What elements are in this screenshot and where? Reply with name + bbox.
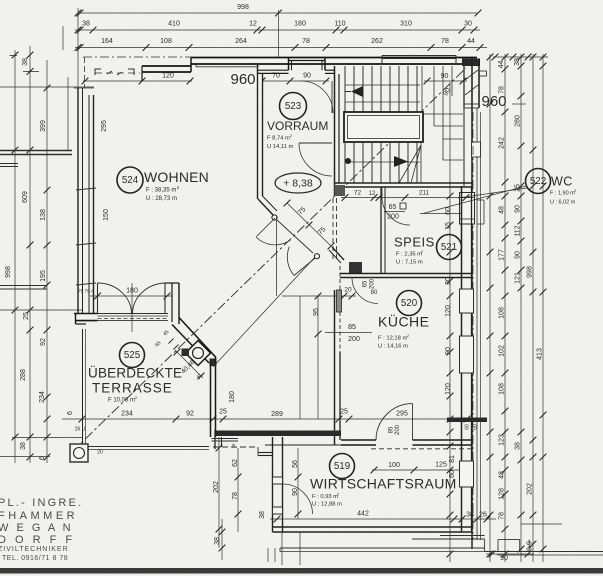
stair bottom wall [335,182,472,184]
dim row 3 top [75,47,487,49]
room terrasse 525 [120,343,145,368]
dash-dot roof line top-left [83,56,192,58]
svg-text:120: 120 [162,72,174,79]
right top dim row [493,56,548,58]
svg-text:ZIVILTECHNIKER: ZIVILTECHNIKER [0,546,69,553]
svg-text:38: 38 [259,511,266,519]
svg-text:262: 262 [371,38,383,45]
svg-text:38: 38 [82,20,90,27]
svg-text:60: 60 [472,424,478,430]
speis dim 72 12 211 [341,197,469,199]
svg-text:+ 8,38: + 8,38 [283,177,313,189]
terrace diagonal wall [179,318,216,358]
door threshold lines [98,313,169,315]
dim row 442 y519 [270,518,496,520]
stair arrow down [394,156,408,167]
wall B diagonal + corner post [332,247,344,260]
svg-text:FHAMMER: FHAMMER [0,510,78,522]
kueche right wall [461,186,463,418]
kueche left wall [334,290,336,445]
kueche top wall [340,273,472,275]
stair winder treads bottom-right [399,145,421,183]
svg-text:180: 180 [229,391,236,403]
svg-text:295: 295 [396,410,408,417]
svg-text:80: 80 [371,290,378,296]
dim row 2 top [75,29,480,31]
svg-text:25: 25 [23,312,30,320]
svg-text:12: 12 [369,191,376,197]
svg-text:48: 48 [498,471,505,479]
partition wohnen/vorraum [257,65,259,200]
svg-text:960: 960 [481,93,506,110]
room vorraum 523 [280,93,307,120]
svg-text:65: 65 [389,204,397,211]
svg-text:26 U: 26 U [75,426,86,432]
svg-text:108: 108 [498,383,505,395]
svg-text:202: 202 [526,483,533,495]
svg-text:108: 108 [498,307,505,319]
speis shelf line [420,213,461,215]
stair start dot [345,158,351,164]
svg-text:164: 164 [101,38,113,45]
svg-text:998: 998 [237,4,249,11]
svg-text:38: 38 [20,442,27,450]
wohnen left wall [77,88,79,313]
svg-text:100: 100 [388,462,400,469]
corridor dim 75 75 [287,203,331,246]
svg-text:125: 125 [435,461,447,468]
left dim col lines [14,50,16,463]
corridor door 2 leaf and arc [294,257,317,276]
svg-text:264: 264 [235,38,247,45]
svg-text:211: 211 [419,190,430,197]
svg-text:78: 78 [498,86,505,94]
svg-text:F : 12,18 m: F : 12,18 m [378,336,407,342]
kueche top door [352,278,378,304]
svg-text:38: 38 [514,442,521,450]
svg-text:D O R F F: D O R F F [0,534,75,546]
terrace corner column bottom-left [70,444,88,462]
wirtschaftsraum left wall [272,437,274,532]
dim diagonal 40,46 [175,350,203,378]
svg-text:310: 310 [400,20,412,27]
dim row terrace y419 [62,418,472,420]
vorraum ceiling line [276,217,278,296]
svg-text:90: 90 [500,555,508,562]
svg-text:W E G A N: W E G A N [0,522,73,534]
svg-text:960: 960 [230,71,255,88]
svg-text:128: 128 [498,488,505,500]
dim row 998 top [80,12,478,14]
svg-text:525: 525 [124,350,141,361]
svg-text:121: 121 [514,272,521,284]
svg-text:200: 200 [348,336,360,343]
svg-text:92: 92 [40,338,47,346]
entrance niche top wall [288,58,290,71]
svg-text:108: 108 [160,38,172,45]
svg-text:6: 6 [67,411,74,415]
svg-text:295: 295 [101,120,108,132]
level marker +8,38 [275,173,321,193]
lintel dark band [447,418,487,423]
vorraum entry door arc [301,81,333,113]
svg-text:177: 177 [498,249,505,261]
svg-text:TEL. 0916/71 8 78: TEL. 0916/71 8 78 [2,555,68,562]
top wall building [191,57,477,59]
level label 960 left [223,73,263,88]
svg-text:44: 44 [498,61,505,69]
stair well [344,112,423,142]
svg-text:U : 7,15 m: U : 7,15 m [396,260,423,266]
svg-text:44: 44 [467,38,475,45]
terrace column diamond [186,341,211,366]
svg-text:200: 200 [395,424,401,435]
svg-text:180: 180 [294,20,306,27]
newel post [335,185,346,196]
dim verticals bottom middle [218,437,220,548]
svg-text:112: 112 [514,225,521,236]
svg-text:522: 522 [530,176,546,187]
svg-text:90: 90 [514,205,521,213]
stair winder treads top-right [421,66,423,114]
svg-text:521: 521 [441,242,457,253]
speis west wall [380,187,382,274]
svg-text:WOHNEN: WOHNEN [144,169,209,185]
svg-text:200: 200 [387,213,399,220]
bottom right outside walls [471,532,473,549]
top wall window right (stair) [382,55,456,57]
stair-speis door [382,197,410,225]
terrace west edge [82,329,84,444]
svg-text:90: 90 [303,72,311,79]
svg-text:TERRASSE: TERRASSE [92,381,173,396]
svg-text:288: 288 [20,369,27,381]
terrace right wall vertical [210,361,212,437]
svg-text:U : 14,16 m: U : 14,16 m [378,344,408,350]
dim row wirtschaftsraum y470 [372,469,470,471]
svg-text:90: 90 [441,73,449,80]
svg-text:38: 38 [514,58,521,66]
wall block right of french door [165,282,179,284]
svg-text:90: 90 [514,251,521,259]
corridor closed leaf line [277,220,313,253]
svg-text:KÜCHE: KÜCHE [378,313,430,330]
room kueche 520 [397,291,422,316]
wirtschaftsraum north partition [213,446,258,448]
wc leader lines [423,186,526,214]
room wohnen 524 [117,167,143,193]
svg-text:78: 78 [441,38,449,45]
svg-text:92: 92 [186,410,194,417]
svg-text:F : 0,93 m: F : 0,93 m [312,494,338,500]
wirtschaftsraum bottom wall [273,526,473,528]
svg-text:138: 138 [40,209,47,221]
svg-text:413: 413 [536,348,543,360]
svg-text:20: 20 [344,287,352,294]
svg-text:78: 78 [302,38,310,45]
svg-text:WC: WC [551,174,573,188]
svg-text:123: 123 [498,434,505,446]
level label 960 right [474,95,514,110]
svg-text:25: 25 [219,408,227,415]
stair left wall [334,66,336,196]
left top extension lines [77,8,79,90]
svg-text:95: 95 [313,308,320,316]
svg-text:9,9: 9,9 [526,541,533,551]
room wirtschaftsraum 519 [330,454,355,479]
dim row 4 (120 / 70 90) [83,80,192,82]
svg-text:F : 1,90 m: F : 1,90 m [550,190,575,196]
left horizontal wall stubs [0,150,72,152]
svg-text:524: 524 [122,175,139,186]
svg-text:F : 38,35 m: F : 38,35 m [146,188,176,194]
svg-text:85: 85 [389,426,395,433]
dim row 180 french door y296 [90,295,172,297]
corridor diagonal wall A [258,199,274,216]
svg-text:85: 85 [348,324,356,331]
right dim col lines [449,82,451,562]
svg-text:U : 12,88 m: U : 12,88 m [312,502,342,508]
svg-text:F 10,06 m: F 10,06 m [108,398,135,404]
svg-text:520: 520 [401,298,418,309]
stair treads upper flight [344,66,346,112]
svg-text:38: 38 [22,58,29,66]
svg-text:410: 410 [168,20,180,27]
svg-text:PL.- INGRE.: PL.- INGRE. [0,497,83,509]
wohnen bottom wall + corner [74,313,98,315]
svg-text:U 14,11 m: U 14,11 m [267,144,293,150]
bottom black bar [0,568,603,574]
svg-text:120: 120 [445,305,452,317]
svg-text:U : 6,02 m: U : 6,02 m [550,199,576,205]
svg-text:78: 78 [498,512,505,520]
svg-text:120: 120 [445,383,452,395]
svg-text:65: 65 [363,280,369,287]
svg-text:234: 234 [39,391,46,403]
svg-text:76: 76 [231,443,236,449]
svg-text:WIRTSCHAFTSRAUM: WIRTSCHAFTSRAUM [310,476,457,492]
terrace edge line to corridor [213,256,316,367]
svg-text:289: 289 [271,411,283,418]
svg-text:U : 28,73 m: U : 28,73 m [146,196,177,202]
svg-text:15: 15 [445,222,452,230]
svg-text:60: 60 [464,424,470,430]
svg-text:F : 2,35 m: F : 2,35 m [396,252,422,258]
svg-text:F 8,74 m: F 8,74 m [267,136,290,142]
svg-text:81: 81 [449,455,456,463]
room wc 522 [526,169,551,194]
svg-text:519: 519 [334,461,350,472]
svg-text:998: 998 [526,266,533,278]
svg-text:72: 72 [354,190,362,197]
svg-text:90: 90 [445,347,452,355]
corridor door at stairs [299,142,332,144]
stair treads lower flight [344,142,346,183]
svg-text:48: 48 [498,206,505,214]
svg-text:998: 998 [5,266,12,278]
svg-text:442: 442 [357,510,369,517]
svg-text:242: 242 [498,137,505,149]
top wall window left [196,66,258,68]
svg-text:102: 102 [498,345,505,357]
svg-text:12: 12 [249,20,257,27]
svg-text:200: 200 [370,278,376,289]
thick band terrace south [215,431,341,437]
svg-text:110: 110 [334,20,345,27]
svg-text:ÜBERDECKTE: ÜBERDECKTE [88,366,182,381]
svg-text:30: 30 [464,20,472,27]
svg-text:609: 609 [22,191,29,203]
section cut line diagonal [72,68,466,452]
svg-text:25: 25 [340,408,348,415]
wirtschaftsraum right wall + window [461,418,463,532]
svg-text:195: 195 [40,270,47,282]
stair arrow up [351,86,363,97]
svg-text:38: 38 [466,511,474,518]
kueche-wirtschaftsraum door [376,404,413,440]
french doors to terrace [97,283,99,314]
svg-text:399: 399 [40,120,47,132]
svg-text:VORRAUM: VORRAUM [267,119,328,133]
svg-text:20: 20 [97,449,103,455]
wirtschaftsraum door [283,484,313,514]
svg-text:6°: 6° [197,375,203,381]
corridor door 1 leaf and arc [257,218,276,237]
svg-text:234: 234 [121,410,133,417]
svg-text:523: 523 [285,101,302,112]
kueche south wall [341,439,376,441]
svg-text:150: 150 [103,209,110,221]
svg-text:75 75 A: 75 75 A [78,288,95,294]
right outer wall [462,59,480,67]
speis window right wall [460,193,475,225]
svg-text:38: 38 [214,537,221,545]
svg-text:280: 280 [514,115,521,127]
svg-text:SPEIS: SPEIS [394,234,435,249]
